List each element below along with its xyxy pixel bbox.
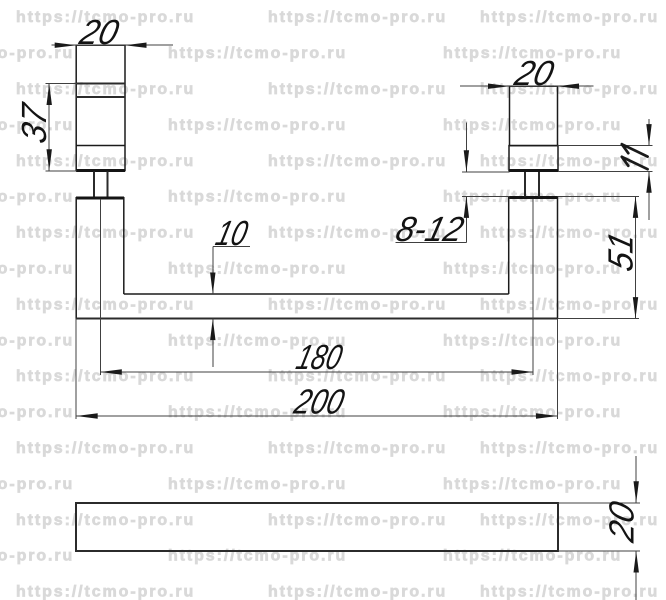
dim 200 line xyxy=(76,415,557,417)
svg-text:https://tcmo-pro.ru: https://tcmo-pro.ru xyxy=(268,440,447,457)
dim 11 text digit 2 xyxy=(622,157,648,169)
left post centerline xyxy=(99,199,101,375)
right post cap outline xyxy=(509,146,558,171)
bottom view bar rectangle xyxy=(76,503,558,551)
dim 10 vertical line upper xyxy=(212,247,214,294)
svg-text:https://tcmo-pro.ru: https://tcmo-pro.ru xyxy=(268,296,447,313)
svg-text:https://tcmo-pro.ru: https://tcmo-pro.ru xyxy=(268,81,447,98)
dim 37 bottom arrow xyxy=(47,149,52,171)
svg-text:200: 200 xyxy=(290,382,349,421)
dim 51 line xyxy=(635,196,637,318)
dim 20 TR right arrow xyxy=(558,84,580,89)
svg-text:https://tcmo-pro.ru: https://tcmo-pro.ru xyxy=(0,404,74,421)
handle right top thick line xyxy=(510,196,558,199)
dim 11 lower arrow xyxy=(646,171,651,193)
dim 8-12 vertical upper xyxy=(465,123,467,172)
dim 200 right ext line xyxy=(557,319,559,419)
dimension 20 top-left line xyxy=(52,44,174,46)
left mounting post body xyxy=(76,45,125,170)
dim 11 vertical upper xyxy=(648,119,650,146)
svg-text:https://tcmo-pro.ru: https://tcmo-pro.ru xyxy=(168,117,347,134)
svg-text:https://tcmo-pro.ru: https://tcmo-pro.ru xyxy=(443,404,622,421)
dim 11 upper ext line xyxy=(558,145,653,147)
right post cap bottom thick line xyxy=(509,169,558,172)
svg-text:https://tcmo-pro.ru: https://tcmo-pro.ru xyxy=(480,9,659,26)
dim 51 top arrow xyxy=(633,196,638,218)
svg-text:https://tcmo-pro.ru: https://tcmo-pro.ru xyxy=(16,440,195,457)
right neck right edge xyxy=(538,172,540,197)
left neck left edge xyxy=(93,172,95,197)
dim 37 top arrow xyxy=(47,84,52,106)
dim 20 bottom vertical upper xyxy=(635,456,637,503)
dim 37 line xyxy=(48,84,50,171)
left post lower section line xyxy=(76,145,125,147)
dim 20 bottom vertical lower xyxy=(635,551,637,600)
svg-text:https://tcmo-pro.ru: https://tcmo-pro.ru xyxy=(443,117,622,134)
svg-text:https://tcmo-pro.ru: https://tcmo-pro.ru xyxy=(480,368,659,385)
svg-text:https://tcmo-pro.ru: https://tcmo-pro.ru xyxy=(480,440,659,457)
svg-text:https://tcmo-pro.ru: https://tcmo-pro.ru xyxy=(268,584,447,600)
handle outer bottom line xyxy=(76,318,557,320)
dim 8-12 upper arrow xyxy=(464,150,469,172)
svg-text:37: 37 xyxy=(14,99,53,147)
dim 51 bottom arrow xyxy=(633,297,638,319)
right mounting post body xyxy=(510,86,558,145)
svg-text:https://tcmo-pro.ru: https://tcmo-pro.ru xyxy=(0,45,74,62)
dim 10 lower arrow xyxy=(210,319,215,341)
svg-text:https://tcmo-pro.ru: https://tcmo-pro.ru xyxy=(0,548,74,565)
svg-text:https://tcmo-pro.ru: https://tcmo-pro.ru xyxy=(168,45,347,62)
right neck left edge xyxy=(524,172,526,197)
dim 8-12 lower ext line xyxy=(462,195,510,197)
handle inner bottom line xyxy=(124,293,509,295)
dim 180 line xyxy=(100,371,533,373)
svg-text:https://tcmo-pro.ru: https://tcmo-pro.ru xyxy=(16,225,195,242)
dim 51 top ext line xyxy=(558,195,640,197)
dim 10 upper arrow xyxy=(210,273,215,295)
svg-text:20: 20 xyxy=(602,497,641,546)
svg-text:https://tcmo-pro.ru: https://tcmo-pro.ru xyxy=(480,81,659,98)
dim 8-12 upper ext line xyxy=(462,171,510,173)
svg-text:https://tcmo-pro.ru: https://tcmo-pro.ru xyxy=(0,476,74,493)
svg-text:https://tcmo-pro.ru: https://tcmo-pro.ru xyxy=(16,584,195,600)
svg-text:8-12: 8-12 xyxy=(392,209,468,248)
dim 20 TR left arrow xyxy=(488,84,510,89)
svg-text:https://tcmo-pro.ru: https://tcmo-pro.ru xyxy=(168,476,347,493)
dim 20 bottom lower arrow xyxy=(634,551,639,573)
svg-text:https://tcmo-pro.ru: https://tcmo-pro.ru xyxy=(268,153,447,170)
svg-text:https://tcmo-pro.ru: https://tcmo-pro.ru xyxy=(480,584,659,600)
dim 8-12 underline xyxy=(396,242,467,244)
svg-text:https://tcmo-pro.ru: https://tcmo-pro.ru xyxy=(0,332,74,349)
dim 8-12 lower arrow xyxy=(464,196,469,218)
dim 11 lower ext line xyxy=(558,170,653,172)
handle left top thick line xyxy=(76,196,124,199)
handle right inner edge xyxy=(508,197,510,295)
dim 51 bottom ext line xyxy=(558,318,640,320)
svg-text:https://tcmo-pro.ru: https://tcmo-pro.ru xyxy=(443,476,622,493)
svg-text:https://tcmo-pro.ru: https://tcmo-pro.ru xyxy=(268,512,447,529)
handle left inner edge xyxy=(123,197,125,294)
handle left outer edge xyxy=(75,197,77,319)
svg-text:https://tcmo-pro.ru: https://tcmo-pro.ru xyxy=(268,9,447,26)
handle right outer edge xyxy=(557,197,559,319)
dim 11 text digit 1 xyxy=(622,144,648,156)
dimension 20 top-right line xyxy=(460,85,593,87)
svg-text:https://tcmo-pro.ru: https://tcmo-pro.ru xyxy=(16,512,195,529)
dim 11 upper arrow xyxy=(646,124,651,146)
left neck right edge xyxy=(107,172,109,197)
left post collar top line xyxy=(76,83,125,85)
dim 20 TL right arrow xyxy=(125,43,147,48)
svg-text:https://tcmo-pro.ru: https://tcmo-pro.ru xyxy=(0,261,74,278)
dim 180 left arrow xyxy=(100,369,122,374)
dim 10 leader line xyxy=(213,246,250,248)
dim 8-12 vertical lower xyxy=(465,196,467,242)
right post centerline xyxy=(532,199,534,375)
dim 37 top extension line xyxy=(46,83,78,85)
dim 20 bottom upper ext line xyxy=(558,502,640,504)
dim 200 left ext line xyxy=(75,319,77,419)
dim 10 vertical line lower xyxy=(212,319,214,367)
dim 200 right arrow xyxy=(536,413,558,418)
dim 200 left arrow xyxy=(76,413,98,418)
dim 37 bottom extension line xyxy=(46,170,78,172)
left post base thick line xyxy=(76,169,125,172)
svg-text:https://tcmo-pro.ru: https://tcmo-pro.ru xyxy=(16,296,195,313)
svg-text:https://tcmo-pro.ru: https://tcmo-pro.ru xyxy=(16,368,195,385)
svg-text:https://tcmo-pro.ru: https://tcmo-pro.ru xyxy=(168,261,347,278)
svg-text:https://tcmo-pro.ru: https://tcmo-pro.ru xyxy=(168,189,347,206)
svg-text:https://tcmo-pro.ru: https://tcmo-pro.ru xyxy=(480,296,659,313)
dim 20 TL left arrow xyxy=(55,43,76,48)
dim 180 right arrow xyxy=(512,369,534,374)
svg-text:https://tcmo-pro.ru: https://tcmo-pro.ru xyxy=(0,189,74,206)
left post collar bottom line xyxy=(76,96,125,98)
dim 11 vertical lower xyxy=(648,171,650,220)
svg-text:https://tcmo-pro.ru: https://tcmo-pro.ru xyxy=(16,153,195,170)
dim 20 bottom lower ext line xyxy=(558,550,640,552)
dim 20 bottom upper arrow xyxy=(634,481,639,503)
